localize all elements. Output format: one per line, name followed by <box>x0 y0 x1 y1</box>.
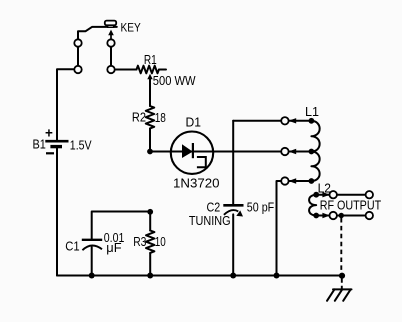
key knob stem <box>108 25 114 27</box>
junction node dashed tap <box>339 213 344 218</box>
svg-text:L1: L1 <box>305 105 319 119</box>
svg-text:B1: B1 <box>33 138 46 152</box>
svg-text:10: 10 <box>155 235 166 249</box>
wire bottom rail <box>57 275 342 277</box>
svg-text:L2: L2 <box>318 181 331 195</box>
svg-text:C1: C1 <box>65 240 79 254</box>
junction node ground rail end <box>339 273 345 279</box>
battery B1 long plate <box>45 140 68 143</box>
terminal L2 bottom <box>330 212 337 219</box>
diode D1 cathode bar <box>192 143 194 158</box>
junction node C1 rail <box>89 273 95 279</box>
terminal key upper right <box>107 39 114 46</box>
battery B1 short plate <box>50 145 62 148</box>
wire left rail upper <box>57 69 78 140</box>
wire L1 bottom tap <box>277 181 312 276</box>
wire L2 top to jack <box>316 194 333 196</box>
svg-text:18: 18 <box>155 111 166 125</box>
terminal L1 tap top <box>281 117 288 124</box>
wire C1 to rail <box>91 247 93 276</box>
junction node L2 bottom <box>313 213 319 219</box>
terminal key upper left <box>74 39 81 46</box>
svg-text:RF OUTPUT: RF OUTPUT <box>320 199 382 213</box>
terminal key lower left <box>74 66 81 73</box>
wire R2 to node <box>149 129 151 152</box>
wire D1 output line <box>150 151 311 153</box>
ground chassis symbol <box>327 289 352 300</box>
junction node L1 bottom <box>309 178 315 184</box>
wire C2 branch vertical <box>232 121 234 204</box>
resistor R1 zigzag <box>137 66 167 74</box>
L1 tap arrow bottom <box>288 178 296 183</box>
svg-text:KEY: KEY <box>121 21 141 35</box>
junction node L1 top <box>309 118 315 124</box>
wire key lever arm <box>78 27 117 43</box>
wire key right post to R1 <box>111 69 137 71</box>
wire L1 top tap <box>233 120 311 122</box>
svg-text:R2: R2 <box>132 111 146 125</box>
inductor L1 coil <box>311 121 319 181</box>
junction node L2 top <box>313 192 319 198</box>
key knob cap <box>105 21 116 26</box>
wire RF output top <box>333 194 369 196</box>
svg-text:TUNING: TUNING <box>189 214 231 228</box>
junction node R2/D1 <box>147 149 153 155</box>
svg-text:D1: D1 <box>186 116 202 130</box>
resistor R3 zigzag <box>146 231 154 253</box>
wire R3 upper <box>149 212 151 231</box>
capacitor C2 curved arrow plate <box>224 210 238 215</box>
junction node L1 middle <box>309 149 315 155</box>
L1 tap arrow middle <box>288 149 296 154</box>
capacitor C1 curved plate <box>82 246 102 251</box>
svg-text:R1: R1 <box>144 53 157 67</box>
terminal L1 tap bottom <box>281 177 288 184</box>
wire key right post <box>110 43 112 70</box>
junction node R3/C1 <box>147 209 153 215</box>
terminal L1 tap middle <box>281 148 288 155</box>
svg-text:500 WW: 500 WW <box>153 74 196 88</box>
terminal RF top <box>366 191 373 198</box>
diode D1 circle <box>171 132 213 174</box>
wire C1 branch <box>92 212 151 240</box>
wire L2 bottom to jack <box>316 215 333 217</box>
wire R1 wiper shaft <box>149 79 151 107</box>
svg-text:1N3720: 1N3720 <box>173 177 220 191</box>
wire dashed below rail <box>341 279 343 289</box>
terminal L2 top <box>330 191 337 198</box>
terminal RF bottom <box>366 212 373 219</box>
resistor R2 zigzag <box>146 106 154 128</box>
L1 tap arrow top <box>288 118 296 123</box>
diode D1 tunnel bracket <box>197 157 206 167</box>
wire RF output bottom <box>333 215 369 217</box>
junction node R3 rail <box>147 273 153 279</box>
key arrow <box>110 35 112 43</box>
inductor L2 coil <box>309 195 316 216</box>
wire R3 lower <box>149 253 151 276</box>
wire left rail lower <box>56 148 58 275</box>
svg-text:1.5V: 1.5V <box>70 138 92 152</box>
L2 arrow bottom <box>322 213 330 218</box>
junction node C2 rail <box>230 273 236 279</box>
diode D1 triangle <box>182 144 193 158</box>
svg-text:R3: R3 <box>133 235 146 249</box>
wire C2 lower vertical <box>232 214 234 275</box>
capacitor C2 top plate <box>223 204 243 207</box>
svg-text:μF: μF <box>106 241 122 255</box>
L2 arrow top <box>322 192 330 197</box>
battery B1 minus sign <box>46 152 54 154</box>
capacitor C1 top plate <box>82 239 102 241</box>
junction node L1 rail <box>274 273 280 279</box>
svg-text:+: + <box>45 125 53 140</box>
wire dashed RF to ground <box>340 218 342 273</box>
wire key left post <box>77 43 79 70</box>
terminal key lower right <box>107 66 114 73</box>
svg-text:C2: C2 <box>207 200 221 214</box>
R1 wiper arrow <box>147 74 152 79</box>
svg-text:50 pF: 50 pF <box>247 201 275 215</box>
